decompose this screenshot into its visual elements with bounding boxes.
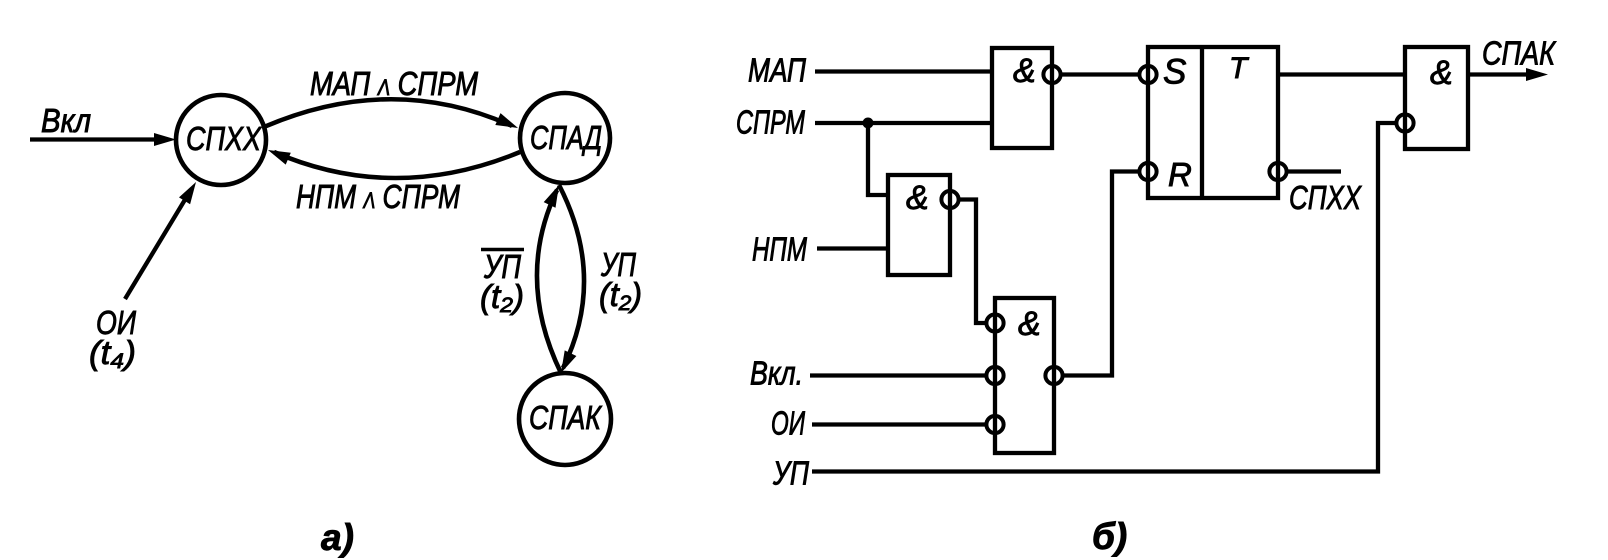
- svg-text:СПРМ: СПРМ: [736, 104, 805, 141]
- svg-text:T: T: [1229, 52, 1250, 85]
- node СПАД circle: [520, 93, 610, 183]
- wire СПРМ input: [815, 121, 992, 125]
- svg-text:&: &: [906, 179, 929, 217]
- svg-text:Вкл.: Вкл.: [750, 355, 803, 392]
- wire D2 output to D3 input 1: [960, 200, 986, 324]
- arrowhead down into СПАК: [561, 350, 576, 373]
- and-gate D3 input bubble 3: [986, 416, 1003, 433]
- svg-text:СПАК: СПАК: [529, 399, 602, 436]
- wire junction down to D2: [868, 123, 888, 195]
- arrowhead into СПХХ: [154, 133, 176, 146]
- flip-flop divider: [1200, 47, 1204, 198]
- wire УП input long run to D4: [812, 123, 1396, 472]
- wire D4 output СПАК: [1468, 72, 1530, 76]
- and-gate D4 input bubble: [1396, 114, 1413, 131]
- svg-text:&: &: [1013, 52, 1036, 90]
- and-gate D3 input bubble 2: [986, 367, 1003, 384]
- arrowhead СПАК output: [1526, 68, 1548, 81]
- wire D1 output to S: [1062, 72, 1139, 76]
- wire: upper transition curve СПХХ to СПАД: [264, 99, 512, 127]
- and-gate D2 body: [888, 175, 950, 275]
- and-gate D3 body: [995, 298, 1054, 453]
- svg-text:НПМ: НПМ: [752, 231, 807, 268]
- wire НПМ input: [817, 246, 888, 250]
- flip-flop R input bubble: [1139, 163, 1156, 180]
- svg-text:S: S: [1163, 53, 1186, 92]
- and-gate D1 output inversion bubble: [1043, 66, 1060, 83]
- svg-text:(t₄): (t₄): [89, 334, 136, 371]
- wire T output to D4: [1278, 72, 1405, 76]
- wire: ОИ diagonal arrow: [125, 198, 186, 299]
- svg-text:(t₂): (t₂): [599, 276, 642, 313]
- node СПХХ circle: [176, 95, 266, 185]
- svg-text:СПХХ: СПХХ: [186, 120, 263, 157]
- and-gate D2 output inversion bubble: [941, 191, 958, 208]
- wire D3 output up to R: [1064, 172, 1139, 376]
- junction node on СПРМ: [863, 118, 874, 129]
- arrowhead into СПАД: [495, 113, 518, 128]
- svg-text:СПАК: СПАК: [1482, 35, 1556, 72]
- flip-flop inverse output bubble: [1269, 163, 1286, 180]
- svg-text:Вкл: Вкл: [41, 102, 91, 139]
- flip-flop T body: [1148, 47, 1278, 198]
- arrowhead into СПХХ lower: [268, 150, 291, 165]
- svg-text:МАП Λ СПРМ: МАП Λ СПРМ: [310, 65, 478, 102]
- and-gate D3 input bubble 1: [986, 314, 1003, 331]
- node СПАК circle: [519, 373, 611, 465]
- svg-text:R: R: [1168, 156, 1192, 193]
- and-gate D4 body: [1405, 47, 1468, 149]
- svg-text:СПХХ: СПХХ: [1289, 179, 1363, 216]
- overline over УП: [481, 248, 524, 252]
- svg-text:&: &: [1430, 54, 1453, 92]
- wire ОИ input: [812, 422, 986, 426]
- arrowhead up into СПАД: [544, 185, 559, 208]
- svg-text:НПМ Λ СПРМ: НПМ Λ СПРМ: [296, 178, 460, 215]
- wire МАП input: [815, 69, 992, 73]
- wire Вкл. input: [810, 373, 986, 377]
- svg-text:ОИ: ОИ: [771, 405, 805, 442]
- svg-text:&: &: [1018, 305, 1041, 343]
- wire: left transition curve СПАК to СПАД: [537, 190, 561, 373]
- and-gate D1 body: [992, 48, 1052, 148]
- svg-text:б): б): [1092, 516, 1127, 557]
- wire inverse output СПХХ stub: [1288, 169, 1342, 173]
- wire: right transition curve СПАД to СПАК: [559, 185, 584, 368]
- svg-text:МАП: МАП: [748, 52, 806, 89]
- wire: lower transition curve СПАД to СПХХ: [274, 152, 520, 178]
- svg-text:СПАД: СПАД: [530, 119, 602, 156]
- svg-text:УП: УП: [772, 455, 809, 492]
- svg-text:(t₂): (t₂): [480, 278, 524, 315]
- svg-text:а): а): [321, 517, 354, 558]
- arrowhead diag into СПХХ: [179, 182, 196, 204]
- wire: Вкл input arrow line: [30, 137, 158, 141]
- flip-flop S input bubble: [1139, 66, 1156, 83]
- and-gate D3 output bubble: [1045, 367, 1062, 384]
